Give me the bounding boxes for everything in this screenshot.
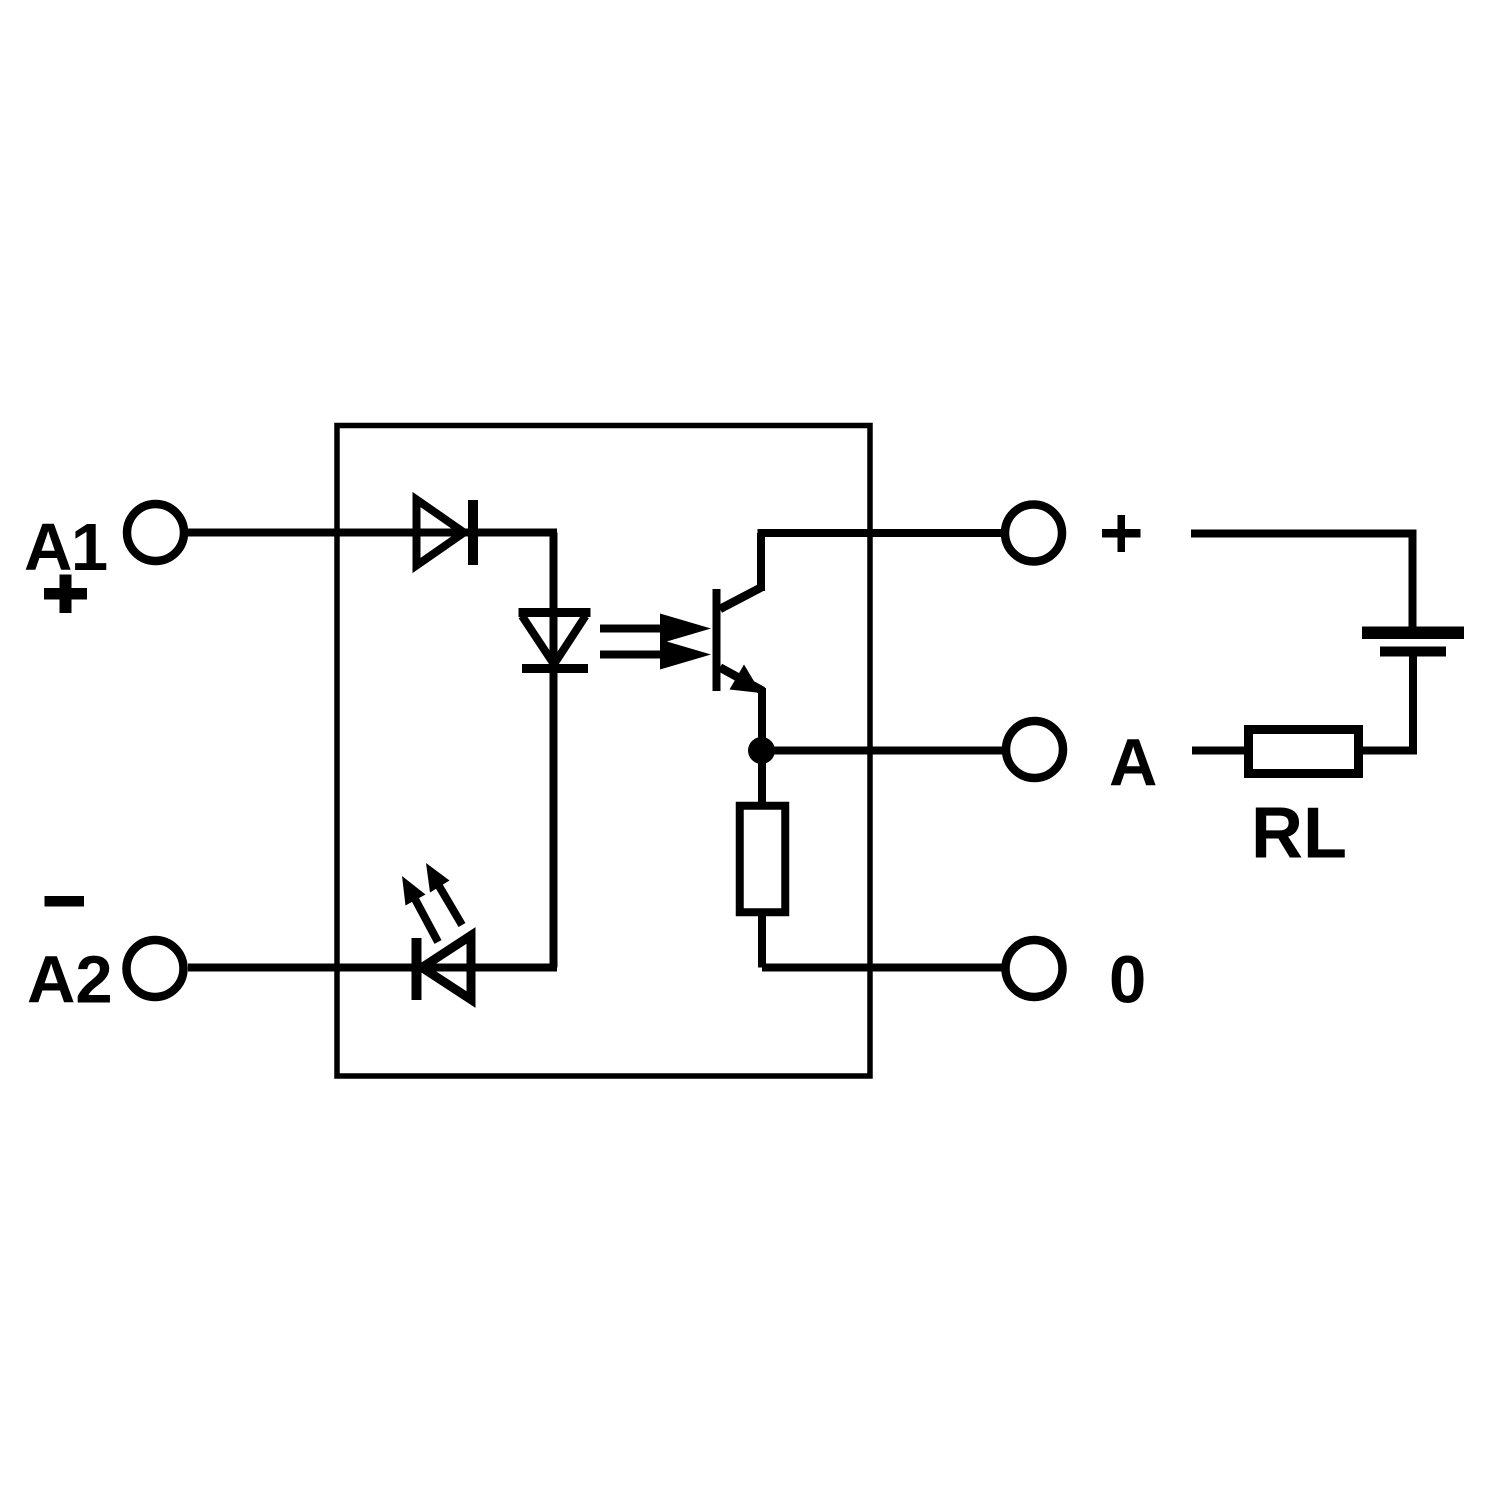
svg-text:RL: RL [1251,794,1347,874]
label + (A1 polarity) [44,575,87,614]
terminal A1 [127,504,184,561]
wire node to resistor [758,748,766,803]
resistor (pull-down) [740,806,786,913]
terminal 0 [1006,940,1063,997]
svg-text:A1: A1 [24,510,107,585]
indicator LED [417,936,472,1001]
optocoupler light arrows [600,614,711,670]
label + (output) [1102,515,1141,552]
wire battery to RL [1363,656,1413,751]
module outline box [337,426,870,1077]
phototransistor Q1 [717,588,764,694]
label - (A2 polarity) [45,896,85,907]
optocoupler LED [519,613,591,669]
node junction dot [748,737,775,764]
svg-text:A2: A2 [27,943,113,1018]
wire A2 to LED branch [188,964,557,972]
load resistor RL [1249,730,1359,774]
wire resistor to 0 terminal [762,912,1004,968]
wire emitter to node [758,688,766,753]
terminal A2 [127,940,184,997]
wire RL to A terminal [1192,747,1249,755]
wire collector to + terminal [758,533,1004,591]
wire LED branch vertical [550,533,558,968]
svg-text:0: 0 [1109,943,1146,1018]
diode D1 (series input diode) [417,500,474,566]
wire A1 to LED branch [188,529,557,537]
terminal A [1006,721,1063,778]
wire + terminal to battery [1191,534,1413,631]
svg-text:A: A [1109,726,1157,801]
terminal + [1005,505,1062,562]
wire node to A terminal [761,747,1004,755]
indicator LED emission arrows [402,863,462,942]
battery [1362,627,1464,657]
